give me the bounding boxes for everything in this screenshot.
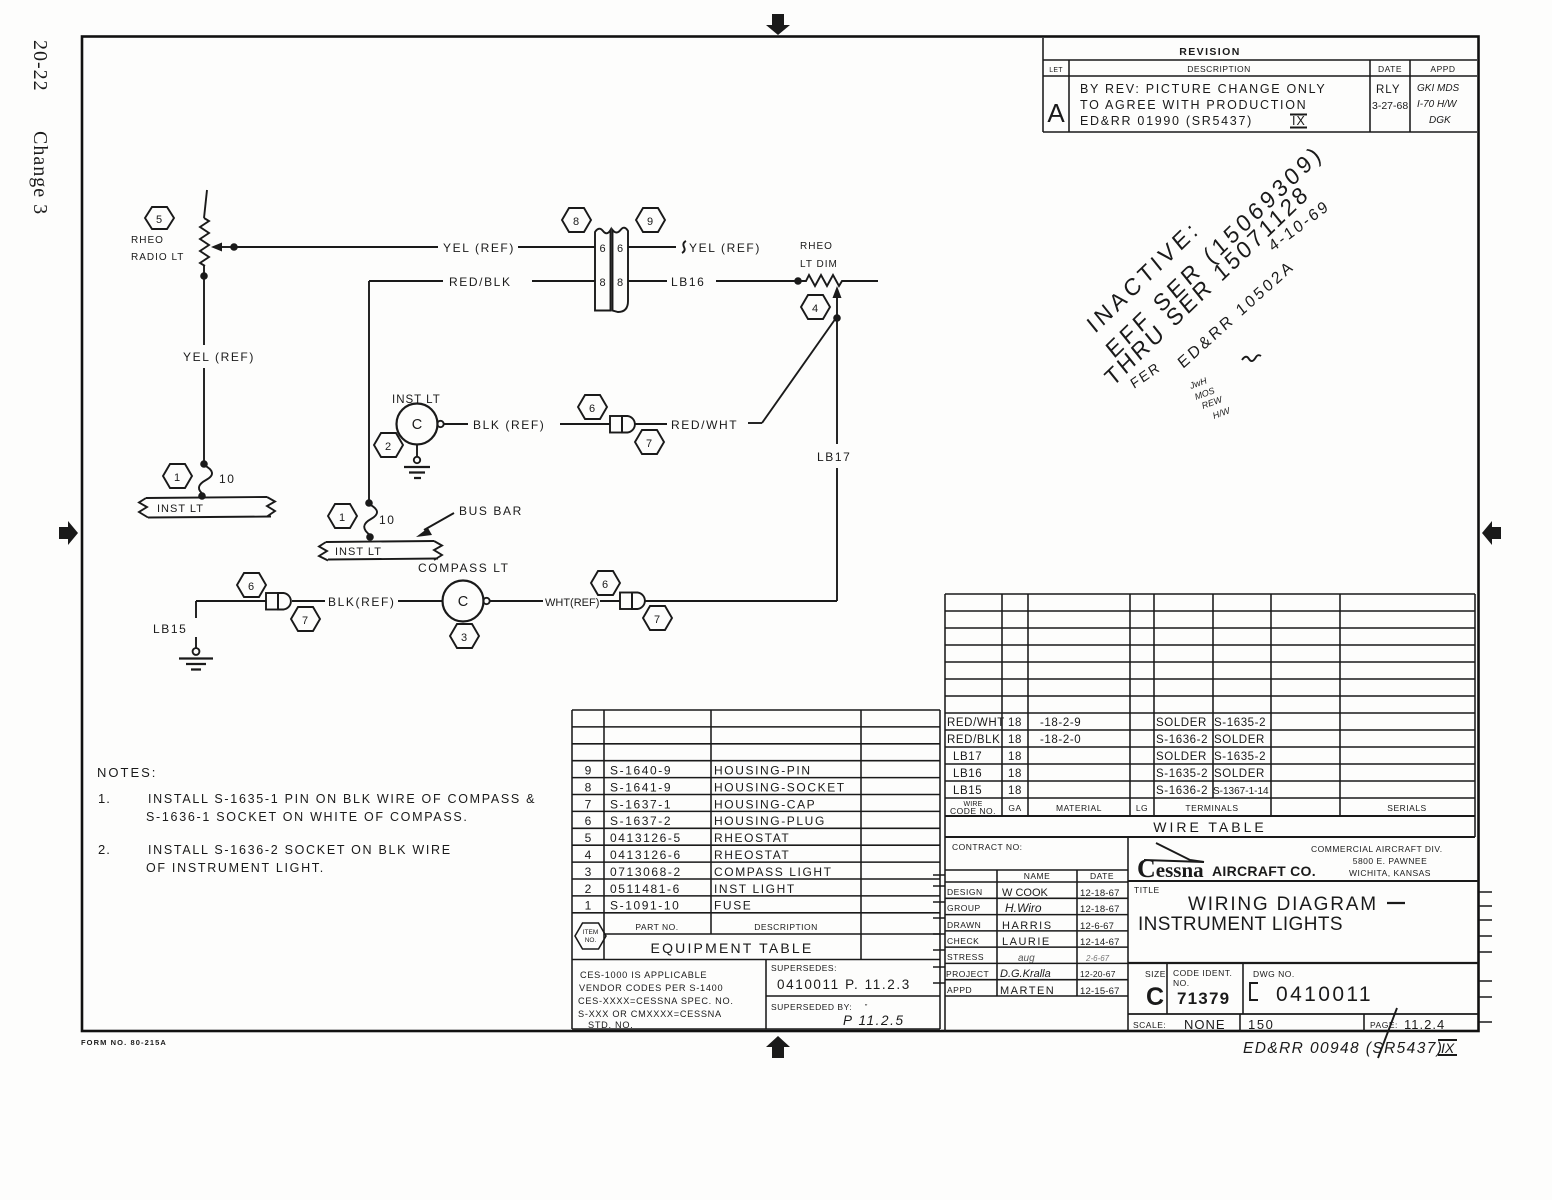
fuse F1 squiggle left <box>199 465 212 495</box>
svg-text:SOLDER: SOLDER <box>1156 751 1207 763</box>
svg-text:PAGE:: PAGE: <box>1370 1020 1398 1030</box>
svg-text:10: 10 <box>219 472 236 486</box>
svg-text:ED&RR 00948 (SR5437): ED&RR 00948 (SR5437) <box>1243 1040 1443 1057</box>
svg-text:S-XXX OR CMXXXX=CESSNA: S-XXX OR CMXXXX=CESSNA <box>578 1009 722 1019</box>
hexagon item 8 <box>562 208 591 232</box>
junction dot at R4 <box>794 277 802 285</box>
svg-text:RHEO: RHEO <box>131 235 164 246</box>
svg-text:DATE: DATE <box>1090 871 1114 881</box>
svg-text:2: 2 <box>585 882 592 896</box>
svg-text:DATE: DATE <box>1378 64 1402 74</box>
svg-text:LAURIE: LAURIE <box>1002 936 1051 948</box>
title block grid <box>945 837 1478 1031</box>
svg-text:8: 8 <box>599 277 605 289</box>
svg-text:P 11.2.5: P 11.2.5 <box>843 1013 905 1028</box>
svg-text:HOUSING-CAP: HOUSING-CAP <box>714 797 816 811</box>
svg-text:SOLDER: SOLDER <box>1156 717 1207 729</box>
svg-text:4: 4 <box>812 303 818 315</box>
hexagon item 7 lower-left <box>291 607 320 631</box>
svg-text:WHT(REF): WHT(REF) <box>545 597 599 609</box>
wire diagonal to LB17 <box>762 318 836 423</box>
svg-text:RHEO: RHEO <box>800 241 833 252</box>
svg-text:6: 6 <box>599 243 605 255</box>
svg-text:-18-2-0: -18-2-0 <box>1040 734 1081 746</box>
svg-text:1.: 1. <box>98 791 111 806</box>
svg-text:S-1637-1: S-1637-1 <box>610 797 672 811</box>
left edge arrow <box>59 521 78 545</box>
svg-text:LB16: LB16 <box>671 275 705 289</box>
label YEL (REF) right <box>682 241 761 255</box>
hexagon item 6 lower-right <box>591 571 620 595</box>
svg-text:6: 6 <box>617 243 623 255</box>
svg-text:LB16: LB16 <box>953 768 982 780</box>
svg-text:BLK (REF): BLK (REF) <box>473 418 545 432</box>
wire table row LB17 <box>953 751 1266 763</box>
svg-text:3-27-68: 3-27-68 <box>1372 100 1408 112</box>
svg-text:S-1641-9: S-1641-9 <box>610 780 672 794</box>
svg-text:FUSE: FUSE <box>714 899 752 913</box>
row DESIGN <box>947 887 1120 899</box>
wire table row LB16 <box>953 768 1265 780</box>
splice S3 <box>620 593 645 610</box>
label BUS BAR with leader arrow <box>416 504 523 537</box>
svg-text:LG: LG <box>1136 803 1148 813</box>
code ident cell <box>1173 968 1232 1008</box>
svg-text:NAME: NAME <box>1024 871 1051 881</box>
svg-text:SCALE:: SCALE: <box>1133 1020 1166 1030</box>
svg-text:2.: 2. <box>98 842 111 857</box>
svg-text:SIZE: SIZE <box>1145 969 1166 979</box>
svg-text:HOUSING-SOCKET: HOUSING-SOCKET <box>714 780 846 794</box>
revision table grid <box>1043 38 1477 132</box>
wiper arrow of R5 <box>211 243 234 252</box>
top edge arrow <box>766 14 790 35</box>
svg-text:12-15-67: 12-15-67 <box>1080 986 1120 997</box>
svg-text:0413126-5: 0413126-5 <box>610 831 682 845</box>
svg-text:S-1637-2: S-1637-2 <box>610 814 672 828</box>
svg-text:1: 1 <box>339 512 345 524</box>
Cessna logo <box>1137 843 1316 883</box>
pin 6 labels of J1 <box>599 243 623 255</box>
svg-text:7: 7 <box>585 797 592 811</box>
rheostat R5 RHEO RADIO LT <box>200 190 209 276</box>
wire LB15 vertical <box>195 601 197 648</box>
svg-text:6: 6 <box>589 403 595 415</box>
svg-text:11.2.4: 11.2.4 <box>1404 1017 1445 1032</box>
row STRESS <box>947 952 1110 964</box>
svg-text:7: 7 <box>302 615 308 627</box>
fold tick marks right edge <box>1479 892 1492 1022</box>
svg-text:MARTEN: MARTEN <box>1000 985 1055 997</box>
svg-text:COMPASS LT: COMPASS LT <box>418 561 510 575</box>
svg-text:S-1636-2: S-1636-2 <box>1156 785 1208 797</box>
svg-text:DWG NO.: DWG NO. <box>1253 969 1295 979</box>
svg-text:NO.: NO. <box>1173 978 1190 988</box>
junction dot at bus 2 <box>366 533 374 541</box>
svg-text:PART NO.: PART NO. <box>635 922 678 932</box>
svg-text:STRESS: STRESS <box>947 952 984 962</box>
svg-text:COMMERCIAL AIRCRAFT DIV.: COMMERCIAL AIRCRAFT DIV. <box>1311 844 1443 854</box>
label RHEO RADIO LT <box>131 235 184 263</box>
wire YEL(REF) upper <box>234 246 595 248</box>
svg-text:6: 6 <box>248 581 254 593</box>
svg-text:RADIO LT: RADIO LT <box>131 252 184 263</box>
svg-text:0410011 P. 11.2.3: 0410011 P. 11.2.3 <box>777 977 911 992</box>
note 1 <box>98 791 536 824</box>
svg-text:Cessna: Cessna <box>1137 854 1204 883</box>
wiper arrow of R4 <box>833 286 842 317</box>
svg-text:18: 18 <box>1008 717 1022 729</box>
handwritten initials scribbles <box>1187 355 1261 421</box>
bus bar INST LT left banner <box>139 497 275 518</box>
right edge arrow <box>1482 521 1501 545</box>
row GROUP <box>947 901 1120 915</box>
svg-text:DRAWN: DRAWN <box>947 920 981 930</box>
fold tick marks left of name table <box>933 875 945 983</box>
equipment table grid <box>572 710 940 1029</box>
svg-text:W COOK: W COOK <box>1002 887 1048 899</box>
svg-text:LB17: LB17 <box>953 751 982 763</box>
revision approvals handwritten <box>1417 83 1460 126</box>
svg-text:-18-2-9: -18-2-9 <box>1040 717 1081 729</box>
ground for DS2 <box>404 445 430 479</box>
svg-text:S-1635-2: S-1635-2 <box>1214 717 1266 729</box>
svg-text:S-1636-2: S-1636-2 <box>1156 734 1208 746</box>
svg-text:D.G.Kralla: D.G.Kralla <box>1000 968 1051 980</box>
stray pen slash <box>1378 1008 1397 1058</box>
wire RED/WHT <box>636 423 763 424</box>
svg-text:HOUSING-PIN: HOUSING-PIN <box>714 764 812 778</box>
svg-text:2-6-67: 2-6-67 <box>1085 954 1110 963</box>
vendor codes note <box>578 970 734 1030</box>
drawing title text <box>1138 894 1405 935</box>
drawing border frame <box>82 37 1479 1032</box>
svg-text:DESCRIPTION: DESCRIPTION <box>1187 64 1251 74</box>
svg-text:RED/WHT: RED/WHT <box>947 717 1005 729</box>
svg-text:TO AGREE WITH PRODUCTION: TO AGREE WITH PRODUCTION <box>1080 98 1307 112</box>
svg-text:TITLE: TITLE <box>1134 885 1160 895</box>
svg-text:S-1640-9: S-1640-9 <box>610 764 672 778</box>
row CHECK <box>947 936 1120 948</box>
svg-text:12-14-67: 12-14-67 <box>1080 937 1120 948</box>
svg-text:9: 9 <box>647 216 653 228</box>
svg-text:LB15: LB15 <box>153 622 187 636</box>
svg-text:INSTRUMENT LIGHTS: INSTRUMENT LIGHTS <box>1138 914 1343 935</box>
wire LB15 to splice S2 <box>196 600 266 602</box>
svg-text:18: 18 <box>1008 768 1022 780</box>
svg-text:IX: IX <box>1441 1040 1455 1056</box>
svg-text:INSTALL S-1636-2 SOCKET ON BL: INSTALL S-1636-2 SOCKET ON BLK WIRE <box>148 843 452 857</box>
svg-text:C: C <box>458 594 468 610</box>
note 2 <box>98 842 452 875</box>
svg-text:CES-1000 IS APPLICABLE: CES-1000 IS APPLICABLE <box>580 970 707 980</box>
hexagon item 5 <box>145 207 174 229</box>
svg-text:3: 3 <box>461 632 467 644</box>
svg-text:STD. NO.: STD. NO. <box>588 1020 633 1030</box>
hexagon item 9 <box>636 208 665 232</box>
wire YEL(REF) vertical drop <box>203 276 205 464</box>
junction dot below wiper <box>833 314 841 322</box>
splice S1 <box>610 416 635 433</box>
svg-text:WIRE TABLE: WIRE TABLE <box>1153 819 1267 835</box>
supersedes block <box>771 963 911 1028</box>
svg-text:A: A <box>1047 98 1065 128</box>
equipment table item numbers <box>585 764 592 913</box>
svg-text:AIRCRAFT CO.: AIRCRAFT CO. <box>1212 863 1316 879</box>
svg-text:12-20-67: 12-20-67 <box>1080 969 1116 979</box>
pin 8 labels of J1 <box>599 277 623 289</box>
junction dot at bus 1 <box>198 492 206 500</box>
svg-text:7: 7 <box>646 438 652 450</box>
Cessna address <box>1311 844 1443 878</box>
wire RED/BLK horizontal <box>369 280 595 282</box>
svg-text:CODE NO.: CODE NO. <box>950 806 996 816</box>
svg-text:5800 E. PAWNEE: 5800 E. PAWNEE <box>1353 856 1428 866</box>
lamp DS2 INST LT <box>397 404 444 445</box>
equipment table headers <box>635 922 817 956</box>
ground for LB15 <box>179 648 213 669</box>
svg-text:0410011: 0410011 <box>1276 983 1373 1006</box>
label RHEO LT DIM <box>800 241 838 270</box>
svg-text:INST LT: INST LT <box>335 546 382 558</box>
hexagon item 3 <box>450 624 479 648</box>
dwg no cell <box>1250 969 1373 1006</box>
wire LB17 vertical <box>836 318 838 601</box>
svg-text:RED/BLK: RED/BLK <box>449 275 512 289</box>
svg-text:GROUP: GROUP <box>947 903 981 913</box>
svg-text:INST LT: INST LT <box>157 503 204 515</box>
hexagon item 2 <box>374 433 403 457</box>
svg-text:1: 1 <box>174 472 180 484</box>
row DRAWN <box>947 920 1114 932</box>
svg-text:NONE: NONE <box>1184 1017 1226 1032</box>
wire BLK (REF) from DS2 <box>444 423 610 425</box>
svg-text:LB17: LB17 <box>817 450 851 464</box>
junction dot node A <box>230 243 238 251</box>
svg-text:aug: aug <box>1018 953 1035 964</box>
svg-text:YEL (REF): YEL (REF) <box>443 241 515 255</box>
svg-text:OF INSTRUMENT LIGHT.: OF INSTRUMENT LIGHT. <box>146 861 325 875</box>
hexagon item 6 lower-left <box>237 573 266 597</box>
wire WHT(REF) <box>490 600 620 602</box>
svg-text:INST LIGHT: INST LIGHT <box>714 882 796 896</box>
equipment table part numbers <box>610 764 682 913</box>
svg-text:RED/BLK: RED/BLK <box>947 734 1000 746</box>
svg-text:7: 7 <box>654 614 660 626</box>
svg-text:YEL (REF): YEL (REF) <box>689 241 761 255</box>
svg-text:150: 150 <box>1248 1017 1275 1032</box>
svg-text:0713068-2: 0713068-2 <box>610 865 682 879</box>
svg-text:SUPERSEDED BY:: SUPERSEDED BY: <box>771 1002 852 1012</box>
svg-text:C: C <box>412 417 422 433</box>
svg-text:GA: GA <box>1008 803 1021 813</box>
svg-text:0413126-6: 0413126-6 <box>610 848 682 862</box>
svg-text:HOUSING-PLUG: HOUSING-PLUG <box>714 814 826 828</box>
svg-text:COMPASS LIGHT: COMPASS LIGHT <box>714 865 833 879</box>
name date headers <box>1024 871 1114 881</box>
svg-text:BUS BAR: BUS BAR <box>459 504 523 518</box>
svg-text:4: 4 <box>585 848 592 862</box>
svg-text:8: 8 <box>573 216 579 228</box>
svg-text:BY REV: PICTURE CHANGE ONLY: BY REV: PICTURE CHANGE ONLY <box>1080 82 1326 96</box>
svg-text:5: 5 <box>585 831 592 845</box>
svg-text:APPD: APPD <box>1430 64 1455 74</box>
svg-text:VENDOR CODES PER S-1400: VENDOR CODES PER S-1400 <box>579 983 723 993</box>
svg-text:IX: IX <box>1292 114 1306 128</box>
svg-text:DESIGN: DESIGN <box>947 887 983 897</box>
svg-text:20-22: 20-22 <box>29 40 51 92</box>
svg-text:CONTRACT NO:: CONTRACT NO: <box>952 842 1023 852</box>
svg-text:8: 8 <box>617 277 623 289</box>
svg-text:18: 18 <box>1008 751 1022 763</box>
svg-text:S-1636-1 SOCKET ON WHITE OF CO: S-1636-1 SOCKET ON WHITE OF COMPASS. <box>146 810 469 824</box>
scale row <box>1133 1017 1445 1032</box>
svg-text:H.Wiro: H.Wiro <box>1005 901 1042 915</box>
hexagon item 1 center <box>328 504 357 528</box>
svg-text:10: 10 <box>379 513 396 527</box>
svg-text:0511481-6: 0511481-6 <box>610 882 681 896</box>
svg-text:SOLDER: SOLDER <box>1214 768 1265 780</box>
lamp DS3 COMPASS LT <box>443 581 490 622</box>
revision date <box>1372 84 1408 112</box>
wire LB16 <box>628 280 798 282</box>
wire table column headers <box>950 801 1427 816</box>
wire table row RED/WHT <box>947 717 1266 729</box>
svg-text:9: 9 <box>585 764 592 778</box>
rheostat R4 RHEO LT DIM <box>798 275 878 286</box>
wire table row RED/BLK <box>947 734 1265 746</box>
svg-text:12-6-67: 12-6-67 <box>1080 921 1114 932</box>
svg-text:LB15: LB15 <box>953 785 982 797</box>
bus bar INST LT center banner <box>319 541 442 561</box>
svg-text:CES-XXXX=CESSNA SPEC. NO.: CES-XXXX=CESSNA SPEC. NO. <box>578 996 734 1006</box>
wire table grid <box>945 594 1475 837</box>
bottom edge arrow <box>766 1036 790 1058</box>
svg-text:12-18-67: 12-18-67 <box>1080 888 1120 899</box>
svg-text:DGK: DGK <box>1429 115 1452 126</box>
svg-text:APPD: APPD <box>947 985 972 995</box>
row PROJECT <box>946 968 1116 980</box>
wire YEL(REF) right stub <box>628 246 676 248</box>
hexagon item 7 lower-right <box>643 606 672 630</box>
svg-text:5: 5 <box>156 214 162 226</box>
svg-text:BLK(REF): BLK(REF) <box>328 595 395 609</box>
svg-text:LET: LET <box>1049 67 1063 74</box>
wire BLK(REF) to compass <box>292 600 442 602</box>
row APPD <box>947 985 1120 997</box>
svg-text:CODE IDENT.: CODE IDENT. <box>1173 968 1232 978</box>
hexagon item 4 <box>801 295 830 319</box>
wire table row LB15 <box>953 785 1269 797</box>
svg-text:TERMINALS: TERMINALS <box>1185 803 1238 813</box>
svg-text:71379: 71379 <box>1177 989 1230 1008</box>
splice S2 <box>266 593 291 610</box>
svg-text:18: 18 <box>1008 785 1022 797</box>
svg-text:8: 8 <box>585 780 592 794</box>
svg-text:WICHITA, KANSAS: WICHITA, KANSAS <box>1349 868 1431 878</box>
svg-text:INSTALL S-1635-1 PIN ON BLK WI: INSTALL S-1635-1 PIN ON BLK WIRE OF COMP… <box>148 792 536 806</box>
svg-text:RHEOSTAT: RHEOSTAT <box>714 848 790 862</box>
svg-text:NOTES:: NOTES: <box>97 765 157 780</box>
connector J1 housings items 8/9 <box>595 228 628 312</box>
svg-text:1: 1 <box>585 899 592 913</box>
svg-text:HARRIS: HARRIS <box>1002 920 1053 932</box>
svg-text:C: C <box>1146 983 1164 1011</box>
svg-text:FORM NO. 80-215A: FORM NO. 80-215A <box>81 1038 167 1047</box>
svg-text:EQUIPMENT TABLE: EQUIPMENT TABLE <box>651 940 814 956</box>
fuse F2 squiggle center <box>364 504 377 535</box>
junction dot on R5 lower lead <box>200 272 208 280</box>
svg-text:18: 18 <box>1008 734 1022 746</box>
svg-text:6: 6 <box>585 814 592 828</box>
svg-text:ED&RR 01990 (SR5437): ED&RR 01990 (SR5437) <box>1080 114 1253 128</box>
size cell <box>1145 969 1166 1011</box>
wire RED/BLK vertical drop <box>368 281 370 503</box>
junction dot above fuse 2 <box>365 499 373 507</box>
item no hexagon symbol <box>575 923 606 949</box>
svg-text:S-1635-2: S-1635-2 <box>1214 751 1266 763</box>
svg-text:MATERIAL: MATERIAL <box>1056 803 1102 813</box>
svg-text:SERIALS: SERIALS <box>1387 803 1426 813</box>
svg-text:S-1367-1-14: S-1367-1-14 <box>1213 786 1269 797</box>
hexagon item 7 upper <box>635 430 664 454</box>
wire WHT(REF) to LB17 <box>646 600 838 602</box>
equipment table descriptions <box>714 764 846 913</box>
svg-text:LT DIM: LT DIM <box>800 259 838 270</box>
svg-text:3: 3 <box>585 865 592 879</box>
svg-text:S-1635-2: S-1635-2 <box>1156 768 1208 780</box>
svg-text:RLY: RLY <box>1376 84 1401 96</box>
svg-text:S-1091-10: S-1091-10 <box>610 899 680 913</box>
svg-text:PROJECT: PROJECT <box>946 969 989 979</box>
svg-text:12-18-67: 12-18-67 <box>1080 904 1120 915</box>
svg-text:YEL (REF): YEL (REF) <box>183 350 255 364</box>
svg-text:RHEOSTAT: RHEOSTAT <box>714 831 790 845</box>
svg-text:ITEM: ITEM <box>583 929 599 936</box>
svg-text:DESCRIPTION: DESCRIPTION <box>754 922 818 932</box>
svg-text:INST LT: INST LT <box>392 394 441 406</box>
svg-text:I-70 H/W: I-70 H/W <box>1417 99 1458 110</box>
svg-text:RED/WHT: RED/WHT <box>671 418 738 432</box>
revision column headers <box>1049 64 1455 74</box>
hexagon item 1 left <box>163 464 192 488</box>
svg-text:2: 2 <box>385 441 391 453</box>
handwritten ED&RR 00948 <box>1243 1040 1457 1057</box>
svg-text:NO.: NO. <box>585 937 597 944</box>
svg-text:SUPERSEDES:: SUPERSEDES: <box>771 963 837 973</box>
revision description <box>1080 82 1326 128</box>
svg-text:REVISION: REVISION <box>1179 46 1240 58</box>
svg-text:Change 3: Change 3 <box>29 131 51 215</box>
junction dot above fuse 1 <box>200 460 208 468</box>
svg-text:WIRING DIAGRAM: WIRING DIAGRAM <box>1188 894 1378 915</box>
hexagon item 6 upper <box>578 395 607 419</box>
svg-text:CHECK: CHECK <box>947 936 979 946</box>
svg-text:6: 6 <box>602 579 608 591</box>
svg-text:GKI MDS: GKI MDS <box>1417 83 1460 94</box>
svg-text:SOLDER: SOLDER <box>1214 734 1265 746</box>
